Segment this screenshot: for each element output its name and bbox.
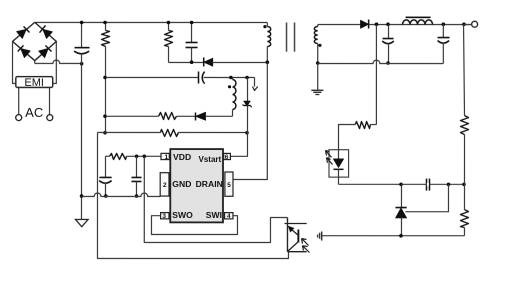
svg-text:VDD: VDD <box>173 152 191 162</box>
svg-text:4: 4 <box>227 213 231 220</box>
svg-text:SWO: SWO <box>172 210 193 220</box>
svg-text:AC: AC <box>25 105 43 120</box>
svg-text:2: 2 <box>163 182 167 189</box>
svg-text:1: 1 <box>164 154 168 161</box>
svg-text:6: 6 <box>225 154 229 161</box>
svg-text:SWI: SWI <box>206 210 222 220</box>
svg-text:GND: GND <box>172 179 191 189</box>
svg-text:DRAIN: DRAIN <box>196 179 223 189</box>
svg-text:5: 5 <box>227 182 231 189</box>
svg-text:Vstart: Vstart <box>198 155 221 164</box>
svg-text:3: 3 <box>162 213 166 220</box>
svg-text:EMI: EMI <box>24 77 44 89</box>
